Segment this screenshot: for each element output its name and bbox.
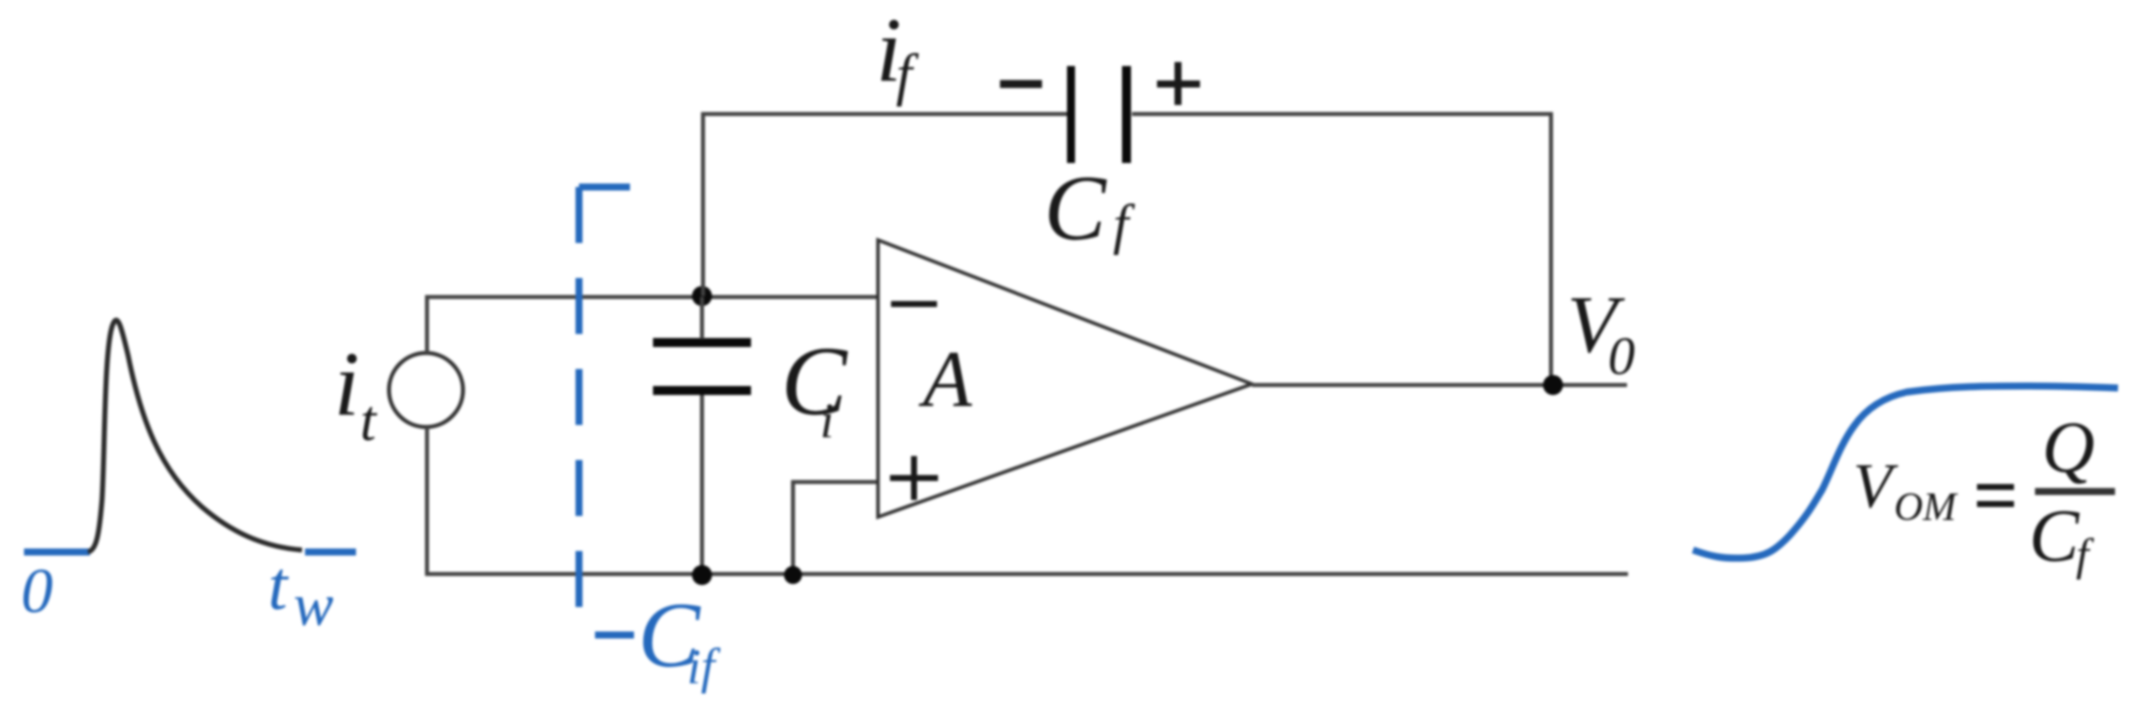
node: non-inverting junction [784,566,802,584]
svg-text:A: A [918,336,973,424]
wire: source bottom lead [425,427,429,576]
node: C_i bottom junction [692,565,712,585]
svg-text:if: if [687,638,721,694]
wire: feedback left vertical [701,114,705,296]
wire: feedback top right segment [1132,112,1553,116]
C_if boundary dashed corner horizontal [579,184,630,191]
wire: source top lead [425,297,429,353]
output step waveform [1693,386,2118,558]
input current pulse curve [88,320,302,552]
input pulse baseline right segment [305,549,356,556]
capacitor C_f right plate [1122,66,1131,163]
op-amp inverting minus sign [891,301,937,307]
svg-text:i: i [820,392,834,448]
polarity minus at C_f [1000,80,1042,88]
current source i_t [389,353,463,427]
fraction bar [2035,488,2115,495]
svg-text:0: 0 [1608,326,1635,386]
node: output junction [1543,375,1563,395]
svg-text:i: i [334,333,360,435]
svg-text:V: V [1853,450,1899,521]
svg-text:C: C [781,327,848,436]
wire: bottom rail [425,572,1628,576]
svg-text:C: C [1044,157,1107,260]
input pulse baseline left segment [24,549,90,556]
wire: main input to inverting input [425,295,878,299]
equals sign [1977,487,2014,504]
wire: feedback right vertical [1549,112,1553,385]
capacitor C_i bottom plate [653,386,751,395]
op-amp A triangle [878,240,1252,517]
svg-text:f: f [2076,529,2095,580]
wire: feedback top left segment [701,112,1069,116]
capacitor C_f left plate [1067,66,1075,163]
label -C_if dash [595,632,634,639]
wire: output [1252,383,1627,387]
svg-text:0: 0 [21,555,53,626]
wire: C_i lower lead [700,395,704,574]
wire: C_i upper lead [700,297,704,339]
polarity plus at C_f [1157,62,1200,105]
op-amp non-inverting plus sign [890,456,938,500]
svg-text:f: f [1113,194,1136,256]
node: input junction [692,286,712,306]
wire: non-inverting input [793,482,878,575]
svg-text:f: f [896,42,919,107]
svg-text:C: C [2029,495,2080,578]
svg-text:Q: Q [2042,407,2095,488]
C_if boundary dashed vertical [576,187,583,607]
svg-text:OM: OM [1894,484,1959,529]
capacitor C_i top plate [653,338,751,347]
svg-text:tw: tw [268,548,333,638]
svg-text:t: t [360,388,378,453]
